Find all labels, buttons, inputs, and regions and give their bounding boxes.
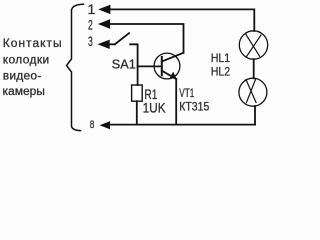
contact 8 arrow bbox=[100, 121, 111, 129]
VT1 base bar bbox=[161, 57, 163, 75]
lamp HL2 body bbox=[239, 78, 267, 106]
svg-text:КТ315: КТ315 bbox=[179, 101, 209, 113]
wire: SA1 fixed contact down to base node and R1 bbox=[130, 44, 137, 85]
svg-text:2: 2 bbox=[88, 16, 93, 32]
lamp HL1 X mark bbox=[246, 35, 261, 57]
resistor R1 body bbox=[132, 85, 143, 101]
svg-text:VT1: VT1 bbox=[179, 88, 194, 100]
wire: pin 2 to VT1 collector bbox=[108, 24, 184, 53]
wire: pin 3 to switch SA1 bbox=[108, 43, 115, 45]
VT1 emitter lead bbox=[162, 71, 176, 79]
svg-text:Контакты: Контакты bbox=[3, 36, 63, 50]
brace grouping camera connector contacts bbox=[67, 4, 84, 130]
svg-text:SA1: SA1 bbox=[112, 57, 136, 72]
wire: base node to VT1 base bbox=[138, 65, 162, 67]
wire: bottom rail (pin 8 to lamps) bbox=[108, 124, 255, 126]
svg-text:камеры: камеры bbox=[3, 84, 45, 98]
wire: HL2 bottom to bottom rail bbox=[254, 106, 256, 125]
contact 2 arrow bbox=[98, 19, 110, 28]
svg-text:видео-: видео- bbox=[3, 69, 42, 83]
contact 3 arrow bbox=[98, 40, 110, 49]
svg-text:HL1: HL1 bbox=[211, 51, 231, 65]
wire: R1 bottom lead to bottom rail bbox=[136, 101, 138, 124]
VT1 emitter arrowhead bbox=[170, 72, 177, 80]
svg-text:1: 1 bbox=[88, 1, 96, 17]
svg-text:1UK: 1UK bbox=[143, 100, 166, 115]
wire: pin 1 to lamp HL1 top bbox=[108, 9, 254, 31]
transistor VT1 body circle bbox=[154, 53, 180, 79]
lamp HL1 body bbox=[239, 31, 267, 59]
switch SA1 lever bbox=[115, 33, 129, 44]
wire: HL1 to HL2 bbox=[253, 59, 255, 78]
svg-text:HL2: HL2 bbox=[211, 64, 231, 78]
svg-text:8: 8 bbox=[90, 119, 95, 131]
svg-text:колодки: колодки bbox=[3, 53, 50, 67]
wire: emitter to bottom rail bbox=[175, 79, 177, 125]
lamp HL2 X mark bbox=[246, 79, 256, 102]
contact 1 arrow bbox=[98, 5, 110, 14]
VT1 collector lead bbox=[162, 53, 184, 62]
svg-text:3: 3 bbox=[88, 33, 93, 49]
